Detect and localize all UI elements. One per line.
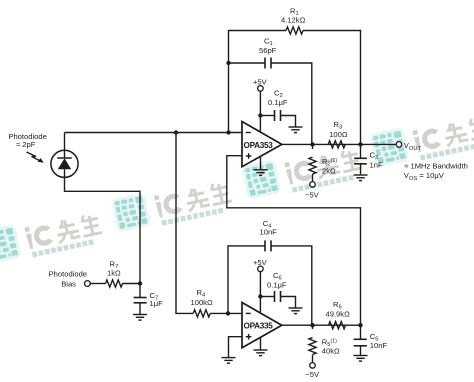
node dot: R6/C5 junction — [358, 323, 362, 327]
capacitor C7 — [134, 298, 147, 303]
capacitor C3 — [354, 158, 367, 164]
node dot: inverting input node — [226, 130, 230, 134]
ground C7 — [133, 315, 147, 321]
wire +5V OPA335 stem — [259, 272, 261, 313]
wire R4 to OPA335 minus — [210, 312, 242, 314]
node dot: C1 branch — [226, 61, 230, 65]
node dot: R7/C7 junction — [138, 281, 142, 285]
ground C2 — [289, 127, 303, 133]
watermark A — [0, 206, 104, 266]
node dot: OPA335 output — [310, 323, 314, 327]
ground C6 — [289, 308, 303, 314]
node dot: OPA353 output — [310, 142, 314, 146]
svg-text:−5V: −5V — [305, 191, 320, 200]
op-amp U2 OPA335 — [242, 303, 282, 348]
svg-text:1μF: 1μF — [150, 299, 164, 308]
resistor R4 — [193, 310, 210, 317]
terminal VOUT — [396, 142, 402, 148]
resistor R2 — [309, 157, 316, 174]
wire C6 branch — [260, 296, 274, 298]
svg-text:+5V: +5V — [253, 78, 268, 87]
capacitor C2 — [275, 110, 281, 121]
wire C3 stem — [360, 144, 362, 158]
svg-text:≈ 1MHz Bandwidth: ≈ 1MHz Bandwidth — [404, 162, 468, 171]
wire photodiode bottom to bias node — [65, 178, 141, 298]
capacitor C5 — [354, 339, 367, 346]
photodiode D1 — [51, 150, 78, 177]
wire input node down to R4 — [176, 133, 193, 314]
svg-text:+5V: +5V — [253, 258, 268, 267]
svg-text:−5V: −5V — [305, 370, 320, 379]
op-amp U1 OPA353 — [242, 122, 282, 167]
wire OPA335 plus to ground — [229, 337, 243, 358]
svg-text:49.9kΩ: 49.9kΩ — [326, 310, 351, 319]
node dot: +5V/C6 — [258, 294, 262, 298]
ground OPA335 V- — [254, 350, 268, 356]
svg-text:40kΩ: 40kΩ — [322, 347, 340, 356]
ground C3 — [354, 175, 368, 181]
svg-text:OPA353: OPA353 — [244, 141, 274, 150]
svg-text:OPA335: OPA335 — [244, 322, 274, 331]
+5V terminal OPA335 — [258, 266, 264, 272]
wire +5V OPA353 stem — [259, 91, 261, 132]
wire bias input to R7 — [90, 283, 105, 285]
ground OPA353 V- — [254, 170, 268, 176]
node dot: +5V/C2 — [258, 113, 262, 117]
wire R7 to node — [122, 283, 140, 285]
svg-text:≈ 2pF: ≈ 2pF — [16, 140, 36, 149]
wire OPA335 Vminus stem — [260, 337, 262, 350]
node dot: R3/C3 junction — [358, 142, 362, 146]
terminal -5V R2 — [310, 182, 316, 188]
wire OPA353 output — [282, 143, 396, 145]
svg-text:2kΩ: 2kΩ — [322, 167, 336, 176]
ground OPA335 plus input — [222, 358, 236, 364]
svg-text:0.1μF: 0.1μF — [268, 98, 288, 107]
wire C2 branch — [260, 115, 274, 117]
arrow to photodiode — [27, 152, 44, 163]
wire top feedback R1 loop — [229, 31, 287, 133]
terminal photodiode bias — [85, 281, 91, 287]
resistor R3 — [328, 141, 345, 148]
wire C7 stem — [139, 303, 141, 314]
terminal -5V R5 — [310, 363, 316, 369]
svg-text:1kΩ: 1kΩ — [107, 268, 121, 277]
wire C5 stem — [360, 325, 362, 339]
wire R5 stem — [312, 325, 314, 329]
watermark D — [369, 110, 474, 170]
svg-text:100kΩ: 100kΩ — [191, 298, 213, 307]
wire C1 branch — [229, 62, 266, 64]
wire OPA353 Vminus stem — [260, 157, 262, 170]
svg-text:100Ω: 100Ω — [329, 130, 348, 139]
wire C4 loop — [228, 246, 265, 314]
svg-text:4.12kΩ: 4.12kΩ — [281, 16, 306, 25]
capacitor C1 — [265, 58, 271, 69]
node dot: input junction to R4 — [174, 130, 178, 134]
svg-text:10nF: 10nF — [370, 341, 388, 350]
svg-text:0.1μF: 0.1μF — [267, 281, 287, 290]
wire photodiode top — [64, 133, 66, 151]
resistor R6 — [329, 322, 346, 329]
svg-text:10nF: 10nF — [260, 228, 278, 237]
resistor R1 — [286, 27, 303, 34]
wire input net — [65, 132, 243, 134]
svg-text:Photodiode: Photodiode — [49, 269, 87, 278]
svg-text:Bias: Bias — [61, 279, 76, 288]
resistor R7 — [106, 280, 123, 287]
ground C5 — [354, 356, 368, 362]
+5V terminal OPA353 — [258, 86, 264, 92]
wire R2 stem — [312, 144, 314, 149]
watermark C — [241, 142, 364, 202]
capacitor C6 — [275, 291, 281, 302]
node dot: OPA335 inverting node — [226, 311, 230, 315]
watermark B — [111, 175, 234, 235]
wire OPA353 plus to comp node — [227, 156, 361, 326]
svg-text:56pF: 56pF — [259, 46, 277, 55]
svg-text:1nF: 1nF — [370, 161, 383, 170]
capacitor C4 — [265, 240, 271, 251]
resistor R5 — [309, 338, 316, 355]
wire OPA335 output — [282, 324, 361, 326]
